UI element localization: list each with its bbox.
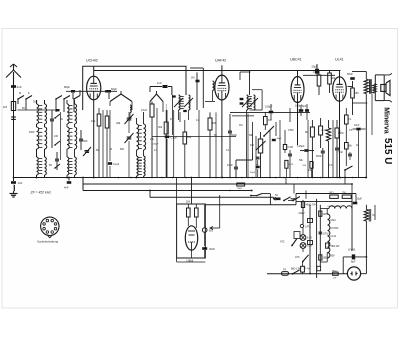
coil IFT2 secondary — [242, 95, 258, 110]
resistor 50k right — [345, 143, 353, 167]
label IF frequency — [30, 191, 52, 195]
capacitor 100pF det — [265, 104, 273, 120]
tube UAF42 — [215, 75, 229, 100]
label UY41 — [348, 248, 356, 252]
wire heater drop — [149, 190, 151, 198]
transformer output primary — [352, 72, 369, 179]
svg-text:K: K — [28, 91, 30, 95]
wire power mid column — [309, 205, 311, 275]
capacitor 100pF grid2 — [300, 104, 310, 120]
wire coil column a — [36, 100, 38, 178]
label UL41 — [335, 58, 344, 62]
label 1M UM4 — [186, 200, 191, 204]
svg-text:30k: 30k — [187, 135, 192, 139]
svg-text:50µF: 50µF — [250, 172, 256, 174]
svg-text:0.1M: 0.1M — [141, 108, 147, 112]
label UM4 heater — [331, 219, 337, 222]
label 90V heater — [331, 255, 336, 258]
transformer output core — [370, 79, 371, 94]
svg-text:ATC: ATC — [280, 241, 285, 244]
wire drops right — [286, 177, 353, 199]
svg-text:UCH42: UCH42 — [331, 227, 340, 230]
capacitor 50pF AVC — [228, 114, 237, 178]
wire grid feeds — [18, 90, 80, 112]
svg-text:400Ω 7W: 400Ω 7W — [306, 204, 317, 207]
svg-text:39k: 39k — [116, 121, 121, 125]
svg-text:5000: 5000 — [84, 150, 90, 153]
coil IFT1 secondary — [174, 95, 193, 110]
resistor 0.5M AF — [283, 130, 293, 153]
capacitor padder — [79, 130, 88, 150]
capacitor 0.1 left — [108, 110, 120, 178]
svg-text:150: 150 — [355, 92, 360, 95]
switch ATC a — [280, 232, 300, 247]
coil IFT2 primary — [247, 95, 252, 110]
resistor 0.1M right — [345, 108, 352, 143]
capacitor elko1 — [308, 219, 313, 223]
speaker — [381, 73, 392, 102]
switch band contacts 2 — [55, 96, 80, 100]
svg-text:Dr: Dr — [373, 214, 376, 217]
wire choke leads — [365, 205, 367, 257]
svg-text:500: 500 — [83, 139, 88, 143]
wire IFT1 leads — [179, 110, 189, 120]
resistor 10k cathode — [91, 108, 101, 178]
lamp M3 — [202, 205, 213, 246]
wire IFT2 frame — [240, 72, 262, 110]
coil osc L7a — [137, 124, 139, 150]
resistor 0.1M — [141, 104, 154, 178]
svg-text:50nF: 50nF — [347, 72, 353, 76]
capacitor 1nF ground leg — [11, 178, 23, 186]
svg-text:UCH42: UCH42 — [86, 59, 98, 63]
coil RF L5a — [67, 127, 69, 149]
coil RF L6a — [67, 157, 69, 175]
wire RF coils — [66, 100, 74, 178]
svg-text:UBC41: UBC41 — [290, 58, 302, 62]
wire B+ bus — [83, 183, 352, 185]
svg-text:UAF42 UBC41: UAF42 UBC41 — [328, 205, 343, 208]
coil RF L4a — [67, 104, 69, 124]
capacitor 5nF tone — [335, 148, 343, 177]
switch band contacts — [17, 91, 32, 100]
svg-text:UY41: UY41 — [348, 248, 356, 252]
capacitor 50nF mains — [353, 198, 363, 205]
coil osc L7b — [138, 124, 145, 150]
svg-text:UM4: UM4 — [187, 259, 194, 263]
capacitor 10nF det — [227, 160, 238, 178]
svg-text:0.5M: 0.5M — [288, 129, 293, 132]
capacitor 1nF coupling — [150, 81, 172, 92]
resistor 1M antenna — [3, 102, 60, 120]
capacitor elko2 — [308, 241, 313, 245]
svg-text:500: 500 — [120, 148, 125, 151]
switch tone — [263, 126, 274, 137]
svg-text:7 MΩ: 7 MΩ — [237, 188, 243, 190]
resistor 30k — [158, 110, 168, 178]
tube UL41 — [333, 77, 347, 101]
svg-text:4nF: 4nF — [64, 186, 69, 190]
wire UAF42 top — [221, 65, 223, 75]
lamp dial 2 — [300, 243, 312, 249]
wire osc coils — [136, 112, 144, 178]
switch mains — [292, 270, 300, 275]
transformer output secondary — [373, 84, 377, 93]
coil antenna L2b — [39, 127, 47, 149]
label 500 — [33, 100, 38, 104]
resistor 30ohm a — [329, 192, 338, 199]
wire IF link — [190, 68, 203, 110]
label Minerva — [383, 107, 390, 134]
svg-text:1nF: 1nF — [157, 81, 162, 85]
capacitor trimmer input — [50, 110, 54, 148]
coil antenna L3b — [39, 157, 47, 175]
svg-text:500: 500 — [33, 100, 38, 104]
wire UBC41 top — [297, 71, 299, 77]
resistor 58ohm heater — [326, 243, 340, 248]
capacitor 0.1 IFT — [165, 110, 178, 178]
coil osc small — [130, 105, 131, 118]
socket diagram — [41, 217, 59, 238]
wire UM4 feed — [191, 177, 193, 204]
coil osc L8a — [137, 156, 139, 176]
svg-text:1M: 1M — [268, 118, 272, 122]
wire det node — [152, 122, 253, 160]
wire UCH42 top — [93, 66, 95, 76]
svg-text:170V: 170V — [323, 232, 329, 236]
svg-text:1M: 1M — [3, 105, 8, 109]
label 240V — [299, 211, 305, 215]
wire top bus — [94, 70, 341, 72]
label UBC41 — [290, 58, 302, 62]
capacitor 170V — [319, 232, 329, 236]
resistor 0.1M AF2 — [319, 118, 327, 148]
label UL41 heater — [331, 235, 337, 238]
svg-text:0.2M: 0.2M — [338, 132, 343, 135]
capacitor 60pF — [105, 87, 117, 99]
svg-text:80pF: 80pF — [64, 85, 70, 89]
svg-text:1M: 1M — [212, 121, 216, 125]
resistor UM4 plate — [195, 204, 199, 228]
capacitor 25uF — [303, 64, 335, 75]
capacitor elko mid — [305, 266, 321, 271]
tube UM4 — [185, 226, 197, 259]
svg-text:UL41: UL41 — [335, 58, 344, 62]
wire power top line — [296, 194, 356, 205]
label sprinkle 5 — [60, 118, 172, 151]
wire power mid3 column — [319, 205, 321, 266]
wire IFT2 leads — [232, 71, 254, 178]
capacitor 10nF right — [353, 124, 366, 130]
resistor 45k screen — [105, 110, 109, 178]
svg-text:10nF: 10nF — [354, 124, 360, 127]
svg-text:M: M — [19, 91, 21, 95]
svg-text:1M: 1M — [239, 124, 242, 127]
capacitor 80pF grid — [64, 85, 75, 99]
switch ATC b — [295, 248, 309, 262]
resistor 30k IFT — [183, 120, 192, 178]
capacitor 20nF UM4 — [202, 247, 215, 259]
svg-text:2000: 2000 — [29, 131, 35, 134]
wire antenna lead — [13, 88, 15, 178]
wire power left column — [302, 200, 304, 224]
label Sockelschaltung — [37, 240, 58, 244]
svg-text:100pF: 100pF — [300, 105, 307, 108]
label UAF42 — [215, 59, 226, 63]
coil RF L4b — [69, 104, 77, 124]
resistor 5k — [305, 120, 314, 178]
tube UCH42 — [87, 76, 101, 100]
coil antenna L2a — [37, 127, 39, 149]
wire right column — [352, 194, 356, 252]
capacitor 8uF — [343, 254, 367, 273]
resistor UM4 grid — [187, 204, 191, 226]
resistor 0.2M — [335, 120, 343, 148]
capacitor trimmer osc1 — [116, 112, 134, 133]
switch tone2 — [344, 166, 352, 178]
svg-text:TA: TA — [283, 267, 286, 271]
capacitor IFT1 trimmers — [172, 95, 187, 112]
svg-text:10nF: 10nF — [227, 163, 233, 167]
wire switch stems — [151, 102, 153, 105]
wire detector line — [230, 111, 310, 113]
wire mains line — [267, 273, 347, 275]
switch power top — [288, 197, 300, 202]
coil IFT1 primary — [179, 95, 184, 110]
coil RF L5b — [69, 127, 77, 149]
label 515U — [382, 138, 393, 164]
switch wave unit — [250, 190, 279, 205]
svg-text:0.3M: 0.3M — [313, 70, 319, 74]
svg-text:Minerva: Minerva — [383, 107, 390, 134]
capacitor 4nF AVC — [64, 177, 71, 190]
wire IFT1 drops — [166, 95, 172, 135]
fuse TA — [282, 267, 289, 275]
coil choke ground leg — [14, 185, 15, 191]
lamp dial 1 — [300, 228, 312, 240]
capacitor antenna series — [11, 85, 22, 89]
fuse 5A heater — [274, 194, 281, 200]
coil antenna L1a — [37, 104, 39, 124]
ground — [10, 191, 18, 197]
coil tone choke — [326, 120, 330, 178]
wire UCH42 cathode — [93, 100, 95, 179]
wire speaker frame — [375, 75, 384, 101]
coil antenna L1b — [39, 104, 47, 124]
potentiometer volume — [250, 132, 266, 178]
svg-text:240V: 240V — [299, 211, 305, 215]
svg-text:58Ω 2W: 58Ω 2W — [331, 245, 340, 248]
label UCH42 — [86, 59, 98, 63]
svg-text:1nF: 1nF — [18, 181, 23, 185]
svg-text:250: 250 — [138, 159, 143, 162]
svg-text:8µF: 8µF — [351, 260, 356, 264]
svg-text:2.2µF: 2.2µF — [305, 268, 311, 270]
svg-text:ATC: ATC — [295, 256, 300, 259]
resistor TF52 — [332, 271, 339, 280]
wire antenna branch — [0, 0, 1, 1]
svg-text:TF52: TF52 — [332, 271, 338, 273]
choke filter — [364, 209, 375, 222]
capacitor IFT2 trimmers — [240, 98, 244, 105]
svg-text:90V: 90V — [331, 255, 336, 258]
svg-text:UL41: UL41 — [331, 235, 337, 238]
resistor 1M diode load — [208, 112, 216, 177]
svg-text:30k: 30k — [158, 125, 163, 129]
svg-text:5nF: 5nF — [339, 150, 344, 154]
plug mains — [347, 267, 360, 280]
switch coil taps — [54, 114, 60, 169]
resistor 150 cathode — [351, 81, 359, 115]
svg-text:M3: M3 — [209, 229, 213, 233]
capacitor trimmer osc2 — [120, 133, 134, 178]
wire AVC bus — [83, 190, 250, 192]
capacitor 0.25 out — [250, 145, 314, 178]
resistor 88ohm — [291, 262, 304, 274]
coil osc L8b — [138, 156, 145, 176]
capacitor 5nF right2 — [348, 152, 352, 160]
svg-text:1M: 1M — [186, 200, 191, 204]
svg-text:+94µF: +94µF — [152, 144, 159, 146]
svg-text:40pF: 40pF — [277, 138, 283, 140]
capacitor 0.25 AF — [272, 122, 294, 178]
label sprinkle 1 — [22, 107, 99, 153]
svg-text:0.25µF: 0.25µF — [297, 145, 305, 148]
svg-text:D: D — [170, 118, 172, 121]
label sprinkle 3 — [226, 124, 293, 167]
wire sec drop — [352, 94, 375, 220]
svg-text:515 U: 515 U — [382, 138, 393, 164]
coil antenna L3a — [37, 157, 39, 175]
wire shield box — [83, 66, 186, 110]
wire UAF42 cathode — [205, 100, 223, 179]
switch heater — [283, 197, 290, 202]
svg-text:30Ω: 30Ω — [329, 192, 334, 195]
wire plug connections — [361, 257, 367, 274]
svg-text:5A: 5A — [275, 194, 278, 197]
coil grid UAF42 — [213, 81, 215, 101]
svg-text:Sockelschaltung: Sockelschaltung — [37, 240, 58, 244]
svg-text:10n: 10n — [308, 169, 313, 172]
label sprinkle 2 — [129, 117, 217, 162]
wire g2 feed — [348, 86, 353, 88]
wire coil column b — [44, 100, 46, 178]
capacitor 50pF — [49, 112, 91, 170]
svg-text:50nF: 50nF — [316, 154, 322, 158]
svg-text:88Ω 13W: 88Ω 13W — [291, 268, 302, 271]
svg-text:ZF = 452 kHz: ZF = 452 kHz — [30, 191, 52, 195]
resistor 50k — [328, 71, 336, 94]
wire UL41 cathode — [339, 101, 341, 178]
lamp L4T2 — [300, 224, 311, 228]
wire drop extra — [180, 108, 290, 178]
svg-text:100pF: 100pF — [265, 105, 273, 109]
tube UBC41 — [291, 77, 304, 103]
wire screen line — [205, 204, 296, 206]
resistor 180 mid — [319, 255, 329, 260]
svg-text:100: 100 — [54, 135, 59, 138]
capacitor 50nF tone — [316, 148, 325, 178]
junction dots — [36, 177, 367, 179]
svg-text:1M: 1M — [250, 143, 254, 147]
heater chain vertical — [327, 209, 330, 259]
svg-text:UM4: UM4 — [331, 219, 337, 222]
resistor on B+ bus — [237, 183, 245, 190]
svg-text:0.1µF: 0.1µF — [113, 163, 120, 166]
svg-text:2M: 2M — [191, 77, 194, 80]
junction dots AVC — [149, 190, 252, 191]
capacitor 100pF det2 — [295, 104, 303, 117]
label UCH42 heater — [331, 227, 340, 230]
wire heater line — [150, 197, 296, 199]
svg-text:UAF42: UAF42 — [215, 59, 226, 63]
resistor 0.3M — [313, 70, 321, 95]
svg-text:0.5M: 0.5M — [288, 146, 293, 149]
variable capacitor gang 1 — [110, 91, 132, 110]
label sprinkle 4 — [299, 129, 359, 172]
wire power mid2 column — [316, 199, 318, 278]
svg-text:2nF: 2nF — [17, 85, 22, 89]
wire UM4 box — [177, 178, 220, 263]
antenna — [6, 64, 21, 90]
resistor 400ohm — [301, 202, 316, 208]
wire UL41 top — [339, 71, 341, 77]
capacitor grid blob — [191, 77, 200, 83]
wire comb — [103, 108, 359, 178]
svg-text:M: M — [110, 148, 112, 151]
svg-text:10k: 10k — [91, 119, 96, 123]
capacitor 50nF cathode — [347, 72, 355, 80]
wire to IFT1 — [171, 87, 173, 96]
svg-text:60pF: 60pF — [111, 87, 117, 91]
wire heater bottom — [320, 252, 327, 262]
resistor 120 mid — [319, 211, 329, 216]
label 20k — [150, 138, 159, 146]
svg-text:10µF: 10µF — [357, 198, 363, 201]
wire grid link — [66, 90, 117, 92]
svg-text:20nF: 20nF — [209, 247, 215, 251]
variable capacitor gang 2 — [150, 91, 163, 112]
heater chain horizontal — [320, 205, 352, 209]
wire UBC41 cathode — [297, 103, 299, 146]
label UM4 — [187, 259, 194, 263]
resistor 30ohm b — [342, 192, 351, 199]
resistor 1M det — [264, 112, 272, 130]
wire bus drop — [82, 177, 84, 191]
wire chassis bus — [14, 177, 367, 179]
coil RF L6b — [69, 157, 76, 175]
